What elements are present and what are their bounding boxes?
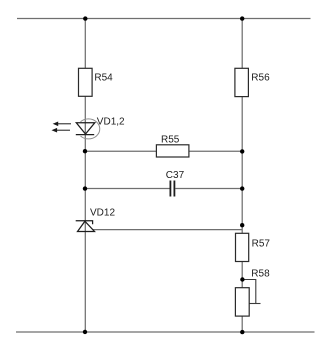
svg-text:C37: C37 bbox=[166, 170, 185, 181]
svg-text:VD1,2: VD1,2 bbox=[97, 117, 125, 128]
svg-text:R58: R58 bbox=[251, 269, 270, 280]
svg-text:R56: R56 bbox=[251, 73, 270, 84]
svg-text:R55: R55 bbox=[161, 135, 180, 146]
svg-text:R57: R57 bbox=[252, 239, 271, 250]
svg-text:VD12: VD12 bbox=[90, 208, 115, 219]
svg-text:R54: R54 bbox=[94, 73, 113, 84]
